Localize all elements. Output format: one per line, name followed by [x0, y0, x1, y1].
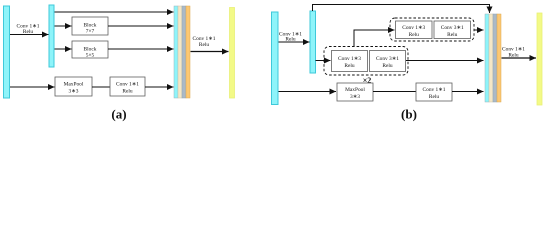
label Conv 1*1 Relu (b output) [502, 47, 525, 59]
label Conv 1*1 Relu (a input) [17, 24, 40, 36]
svg-text:Relu: Relu [344, 63, 354, 69]
wire input to MaxPool (b) [279, 91, 337, 93]
label Conv 1*1 Relu (b input) [279, 31, 302, 42]
svg-text:Conv 1∗1: Conv 1∗1 [116, 82, 139, 88]
concat stack (b) orange slice [497, 14, 501, 102]
svg-text:Relu: Relu [429, 94, 439, 100]
svg-text:Relu: Relu [409, 32, 419, 38]
MaxPool 3*3 box (a) [55, 77, 92, 96]
svg-text:(b): (b) [401, 107, 417, 122]
wire arrow input to bar2 (b) [279, 41, 310, 43]
svg-text:Conv 3∗1: Conv 3∗1 [376, 56, 399, 62]
svg-text:Relu: Relu [122, 89, 132, 95]
svg-text:Conv 1∗1: Conv 1∗1 [423, 87, 446, 93]
svg-text:7×7: 7×7 [86, 29, 95, 35]
svg-text:Relu: Relu [447, 32, 457, 38]
dashed group x2 (b) [324, 47, 408, 76]
wire x2 group up to top group (b) [354, 30, 395, 47]
wire bar2 to x2 group (b) [316, 60, 331, 62]
Conv 1*1 Relu box (b bottom) [416, 83, 452, 101]
input feature-map bar (a) [4, 6, 10, 98]
input feature-map bar (b) [272, 12, 279, 105]
wire MaxPool to Conv (a) [92, 86, 110, 88]
wire bar2 to Block7x7 [55, 25, 72, 27]
wire concat to output bar (a) [191, 51, 229, 53]
wire input to MaxPool (a) [10, 86, 55, 88]
svg-text:5×5: 5×5 [86, 53, 95, 59]
Conv 1*3 Relu box (top group) [396, 21, 433, 39]
concat stack (a) cream slice [178, 6, 182, 98]
wire bar2 to Block5x5 [55, 48, 72, 50]
intermediate bar (a) [49, 5, 54, 67]
svg-text:Relu: Relu [199, 42, 209, 48]
wire Block5x5 to concat [108, 48, 174, 50]
svg-text:Relu: Relu [382, 63, 392, 69]
wire top group to concat (b) [474, 29, 484, 31]
output bar (b) yellow [537, 13, 542, 105]
svg-text:MaxPool: MaxPool [64, 82, 84, 88]
wire arrow input to bar2 (a) [10, 34, 49, 36]
dashed group top (b) [390, 18, 474, 41]
Conv 3*1 Relu box (top group) [434, 21, 471, 39]
concat stack (b) cyan slice [485, 14, 489, 102]
Conv 3*1 Relu box (x2 group) [370, 51, 406, 72]
Block 7x7 box [72, 17, 108, 35]
concat stack (a) cyan slice [174, 6, 178, 98]
svg-text:3∗3: 3∗3 [69, 89, 79, 95]
wire MaxPool to Conv (b) [373, 91, 416, 93]
svg-text:MaxPool: MaxPool [345, 87, 365, 93]
svg-text:3∗3: 3∗3 [350, 94, 360, 100]
svg-text:Conv 1∗3: Conv 1∗3 [338, 56, 361, 62]
wire top shortcut (b) [313, 5, 490, 14]
svg-text:Conv 3∗1: Conv 3∗1 [441, 25, 464, 31]
wire Conv to concat (a) [145, 86, 174, 88]
intermediate bar (b) [310, 11, 316, 73]
output bar (a) yellow [230, 8, 235, 99]
wire top shortcut (a) [55, 11, 174, 13]
concat stack (a) gray slice [182, 6, 186, 98]
concat stack (b) cream slice [489, 14, 493, 102]
Conv 1*3 Relu box (x2 group) [332, 51, 368, 72]
concat stack (a) orange slice [186, 6, 190, 98]
wire Block7x7 to concat [108, 25, 174, 27]
svg-text:(a): (a) [111, 107, 126, 122]
Block 5x5 box [72, 41, 108, 59]
svg-text:Conv 1∗3: Conv 1∗3 [402, 25, 425, 31]
MaxPool 3*3 box (b) [337, 83, 373, 101]
concat stack (b) gray slice [493, 14, 497, 102]
label Conv 1*1 Relu (a output) [193, 36, 216, 48]
wire x2 group to concat (b) [406, 60, 484, 62]
wire concat to output bar (b) [502, 57, 537, 59]
wire Conv to concat (b) [452, 91, 484, 93]
Conv 1*1 Relu box (a bottom) [110, 77, 145, 96]
